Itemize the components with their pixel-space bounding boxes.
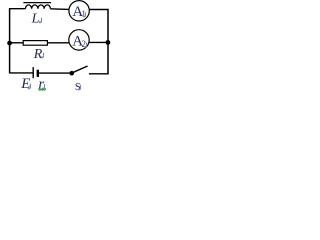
- ammeter A1 label A1: [72, 4, 86, 20]
- resistor R: [23, 41, 47, 46]
- grammar-check squiggle under r: [38, 89, 46, 91]
- label E with paragraph mark: [20, 76, 30, 92]
- switch S lever (open): [73, 66, 88, 73]
- wire coil to ammeter A1: [50, 8, 69, 11]
- ammeter A2 label A2: [72, 33, 86, 49]
- label r with paragraph mark: [38, 76, 44, 92]
- svg-text:L: L: [31, 12, 40, 27]
- wire resistor R to ammeter A2: [47, 42, 69, 44]
- wire bottom-left to battery: [10, 72, 33, 74]
- inductor L (coil with core bar): [23, 3, 51, 9]
- wire top-left horizontal segment: [9, 8, 26, 10]
- svg-text:E: E: [20, 76, 30, 92]
- ammeter A1 circle: [69, 1, 89, 21]
- wire left vertical: [9, 8, 11, 73]
- wire left junction to resistor R: [10, 42, 24, 44]
- wire A2 to right junction: [89, 41, 108, 43]
- ammeter A2 circle: [69, 30, 89, 50]
- wire switch to bottom-right corner: [89, 73, 109, 75]
- node junction left: [7, 41, 12, 46]
- wire battery to switch: [39, 72, 70, 74]
- battery E,r positive plate: [32, 67, 34, 78]
- node junction right: [106, 40, 111, 45]
- wire A1 to top-right corner: [89, 9, 108, 11]
- wire right vertical: [107, 9, 109, 74]
- label R with paragraph mark: [33, 47, 44, 62]
- svg-text:R: R: [33, 47, 43, 62]
- label L with paragraph mark: [31, 12, 42, 27]
- label S with paragraph mark: [75, 82, 81, 93]
- battery E,r negative plate: [37, 70, 39, 77]
- switch S pivot node: [69, 71, 74, 76]
